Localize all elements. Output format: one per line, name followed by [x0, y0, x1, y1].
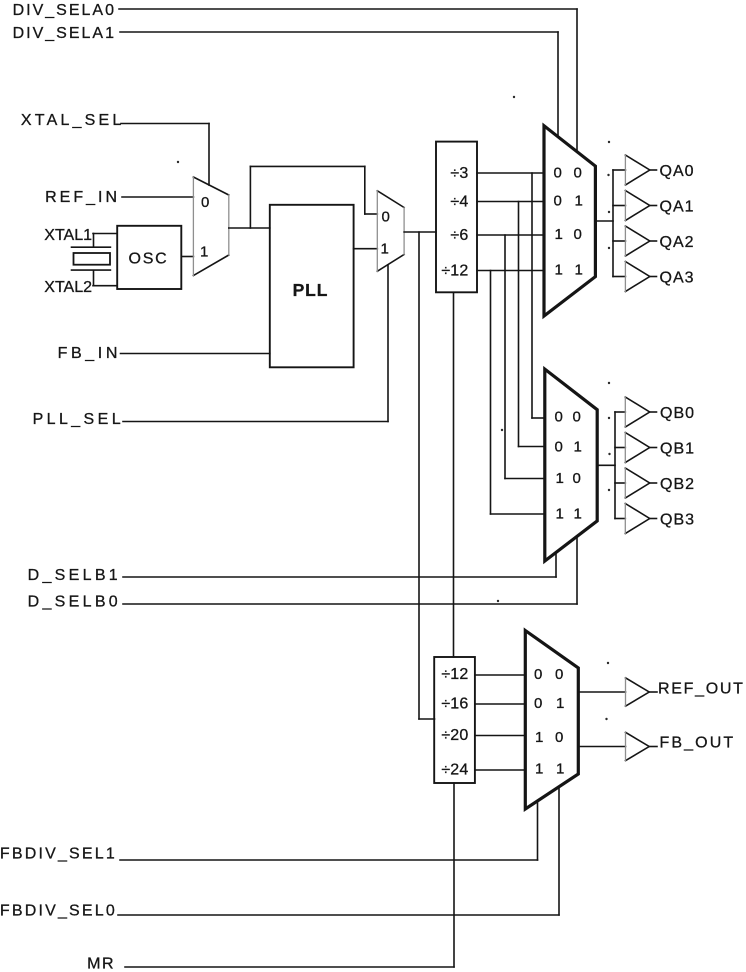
svg-text:÷12: ÷12	[441, 263, 468, 280]
wire stub to QB3 buffer	[615, 518, 625, 520]
svg-text:0: 0	[555, 439, 563, 456]
svg-text:MR: MR	[87, 956, 115, 972]
svg-text:FB_IN: FB_IN	[58, 345, 121, 362]
svg-text:QA0: QA0	[660, 163, 695, 180]
buffer QB0	[625, 397, 649, 427]
svg-text:0: 0	[574, 226, 582, 243]
wire QA0 output stub	[650, 169, 657, 171]
wire XTAL2 to OSC	[93, 285, 117, 287]
svg-text:0: 0	[573, 470, 581, 487]
wire QA2 output stub	[650, 240, 657, 242]
scan speck dot	[177, 161, 179, 163]
svg-text:0: 0	[574, 165, 582, 182]
buffer QB1	[625, 433, 649, 463]
divider bank A box	[436, 142, 477, 293]
wire divide-by-4 branch into mux B input 01	[519, 446, 545, 448]
svg-text:0: 0	[534, 695, 542, 712]
wire mux C output to FB_OUT buffer	[578, 746, 625, 748]
wire mux B output	[597, 464, 615, 466]
svg-text:0: 0	[555, 409, 563, 426]
svg-text:0: 0	[554, 165, 562, 182]
svg-text:DIV_SELA0: DIV_SELA0	[13, 2, 116, 19]
scan speck dot	[608, 211, 610, 213]
wire PLL bypass top	[250, 165, 364, 167]
buffer QA2	[625, 226, 649, 256]
crystal Y1 top plate	[72, 246, 111, 248]
mux A (output bank A mux)	[544, 126, 595, 316]
wire XTAL2 branch to crystal bottom plate	[93, 270, 95, 285]
svg-text:D_SELB1: D_SELB1	[28, 567, 121, 584]
wire FBDIV_SEL0 vertical to mux C select	[558, 787, 560, 916]
wire XTAL_SEL horizontal	[121, 123, 209, 125]
svg-text:PLL_SEL: PLL_SEL	[33, 411, 124, 428]
scan speck dot	[608, 417, 610, 419]
svg-text:1: 1	[555, 226, 563, 243]
wire QA1 output stub	[650, 205, 657, 207]
wire MR vertical to divider B	[453, 783, 455, 967]
wire DIV_SELA0 vertical to mux A select	[576, 9, 578, 152]
wire divide-by-6 to mux A input 10	[477, 234, 544, 236]
svg-text:0: 0	[555, 729, 563, 746]
mux U1 (XTAL_SEL mux)	[193, 177, 228, 276]
buffer QA1	[625, 191, 649, 221]
svg-text:OSC: OSC	[128, 251, 168, 268]
svg-text:÷20: ÷20	[441, 727, 468, 744]
wire QB buffer bus vertical	[614, 412, 616, 519]
scan speck dot	[607, 174, 609, 176]
divider bank B box	[434, 657, 475, 783]
svg-text:QB1: QB1	[660, 441, 695, 458]
svg-text:1: 1	[574, 506, 582, 523]
wire divide-by-4 to mux A input 01	[477, 201, 544, 203]
wire tap down to divider B	[418, 232, 420, 719]
svg-text:QB0: QB0	[660, 405, 695, 422]
wire REF_IN to mux U1 input 0	[122, 196, 193, 198]
wire divide-by-3 branch down to mux B	[531, 173, 533, 418]
buffer QB3	[625, 504, 649, 534]
wire DIV_SELA1 horizontal	[120, 31, 558, 33]
wire QB3 output stub	[650, 518, 657, 520]
svg-text:D_SELB0: D_SELB0	[28, 594, 121, 611]
wire D_SELB1 vertical to mux B select	[555, 553, 557, 578]
svg-text:÷4: ÷4	[450, 194, 468, 211]
buffer QA3	[625, 262, 649, 292]
svg-text:FBDIV_SEL1: FBDIV_SEL1	[0, 846, 117, 863]
svg-text:XTAL1: XTAL1	[44, 227, 92, 244]
svg-text:1: 1	[556, 695, 564, 712]
svg-text:QB3: QB3	[660, 512, 695, 529]
wire stub to QA2 buffer	[613, 240, 625, 242]
wire D_SELB1 horizontal	[123, 576, 556, 578]
scan speck dot	[608, 141, 610, 143]
buffer QA0	[625, 155, 649, 185]
wire QB1 output stub	[650, 447, 657, 449]
wire divide-by-4 branch down to mux B	[518, 202, 520, 447]
svg-text:QA1: QA1	[660, 199, 695, 216]
svg-text:÷24: ÷24	[441, 762, 468, 779]
wire divide-by-12 branch into mux B input 11	[491, 513, 545, 515]
wire PLL bypass drop	[364, 166, 366, 214]
svg-text:0: 0	[382, 209, 390, 226]
svg-text:REF_IN: REF_IN	[45, 189, 120, 206]
svg-text:1: 1	[556, 470, 564, 487]
svg-text:1: 1	[556, 761, 564, 778]
wire XTAL_SEL vertical to mux U1 select	[208, 124, 210, 186]
wire divide-by-12 to mux C input 00	[475, 674, 525, 676]
svg-text:XTAL_SEL: XTAL_SEL	[21, 112, 125, 129]
wire D_SELB0 horizontal	[123, 603, 577, 605]
oscillator OSC box	[117, 226, 181, 289]
svg-text:FB_OUT: FB_OUT	[660, 735, 736, 752]
wire stub to QB1 buffer	[615, 447, 625, 449]
svg-text:÷12: ÷12	[441, 666, 468, 683]
svg-text:QA3: QA3	[660, 270, 695, 287]
wire QB0 output stub	[650, 411, 657, 413]
mux B (output bank B mux)	[545, 369, 597, 561]
svg-text:0: 0	[573, 409, 581, 426]
svg-text:DIV_SELA1: DIV_SELA1	[13, 25, 116, 42]
scan speck dot	[497, 600, 499, 602]
svg-text:FBDIV_SEL0: FBDIV_SEL0	[0, 903, 117, 920]
wire mux U2 output to divider A	[404, 231, 436, 233]
wire DIV_SELA1 vertical to mux A select	[557, 32, 559, 137]
scan speck dot	[607, 662, 609, 664]
svg-text:1: 1	[555, 262, 563, 279]
wire FBDIV_SEL1 vertical to mux C select	[537, 801, 539, 860]
wire QA3 output stub	[650, 276, 657, 278]
wire divide-by-3 branch into mux B input 00	[532, 417, 545, 419]
wire divide-by-20 to mux C input 10	[475, 735, 525, 737]
wire D_SELB0 vertical to mux B select	[576, 537, 578, 605]
scan speck dot	[608, 453, 610, 455]
svg-text:÷3: ÷3	[450, 165, 468, 182]
mux U2 (PLL_SEL mux)	[377, 191, 404, 271]
buffer REF_OUT	[626, 678, 650, 706]
wire divide-by-3 to mux A input 00	[477, 172, 544, 174]
wire MR chain divider A to divider B	[453, 292, 455, 657]
svg-text:1: 1	[535, 761, 543, 778]
wire QA buffer bus vertical	[612, 170, 614, 277]
wire mux U1 output to PLL	[229, 227, 270, 229]
wire PLL_SEL horizontal	[123, 421, 388, 423]
wire DIV_SELA0 horizontal	[119, 8, 577, 10]
scan speck dot	[608, 382, 610, 384]
wire PLL bypass into mux U2 input 0	[365, 213, 378, 215]
buffer QB2	[625, 468, 649, 498]
wire divide-by-24 to mux C input 11	[475, 769, 525, 771]
wire MR horizontal	[125, 966, 454, 968]
wire divide-by-12 to mux A input 11	[477, 270, 544, 272]
PLL U3 box	[270, 205, 354, 367]
wire divide-by-6 branch into mux B input 10	[505, 478, 545, 480]
buffer FB_OUT	[626, 732, 650, 760]
wire divide-by-12 branch down to mux B	[490, 271, 492, 515]
wire PLL output to mux U2 input 1	[354, 248, 378, 250]
scan speck dot	[605, 718, 607, 720]
wire FBDIV_SEL0 horizontal	[118, 914, 559, 916]
scan speck dot	[608, 489, 610, 491]
scan speck dot	[608, 247, 610, 249]
svg-text:÷6: ÷6	[450, 227, 468, 244]
wire tap into divider B input	[419, 718, 435, 720]
wire divide-by-16 to mux C input 01	[475, 703, 525, 705]
wire stub to QB2 buffer	[615, 482, 625, 484]
wire FBDIV_SEL1 horizontal	[120, 859, 538, 861]
svg-text:REF_OUT: REF_OUT	[658, 681, 745, 698]
svg-text:XTAL2: XTAL2	[44, 279, 92, 296]
svg-text:1: 1	[556, 506, 564, 523]
svg-text:PLL: PLL	[293, 280, 329, 300]
wire REF_OUT output stub	[649, 691, 657, 693]
wire stub to QA1 buffer	[613, 205, 625, 207]
svg-text:QA2: QA2	[660, 234, 695, 251]
wire stub to QA3 buffer	[613, 276, 625, 278]
wire PLL bypass riser	[249, 166, 251, 228]
wire XTAL1 branch to crystal top plate	[93, 234, 95, 248]
svg-text:1: 1	[574, 439, 582, 456]
wire FB_IN to PLL	[121, 353, 270, 355]
svg-text:1: 1	[200, 244, 208, 261]
wire OSC output to mux U1 input 1	[181, 256, 193, 258]
wire mux A output	[595, 220, 613, 222]
svg-text:1: 1	[535, 729, 543, 746]
svg-text:0: 0	[555, 666, 563, 683]
scan speck dot	[513, 96, 515, 98]
svg-text:QB2: QB2	[660, 476, 695, 493]
svg-text:1: 1	[575, 193, 583, 210]
wire QB2 output stub	[650, 482, 657, 484]
crystal Y1 body	[74, 253, 111, 265]
scan speck dot	[501, 429, 503, 431]
wire XTAL1 to OSC	[93, 233, 117, 235]
wire divide-by-6 branch down to mux B	[504, 235, 506, 479]
mux C (feedback/reference mux)	[525, 631, 578, 810]
wire stub to QB0 buffer	[615, 411, 625, 413]
svg-text:1: 1	[575, 262, 583, 279]
svg-text:÷16: ÷16	[441, 696, 468, 713]
wire mux C output to REF_OUT buffer	[578, 691, 625, 693]
svg-text:1: 1	[381, 241, 389, 258]
wire stub to QA0 buffer	[613, 169, 625, 171]
wire FB_OUT output stub	[649, 746, 657, 748]
svg-text:0: 0	[201, 194, 209, 211]
wire PLL_SEL vertical to mux U2 select	[387, 265, 389, 422]
svg-text:0: 0	[554, 193, 562, 210]
svg-text:0: 0	[534, 666, 542, 683]
crystal Y1 bottom plate	[72, 269, 111, 271]
